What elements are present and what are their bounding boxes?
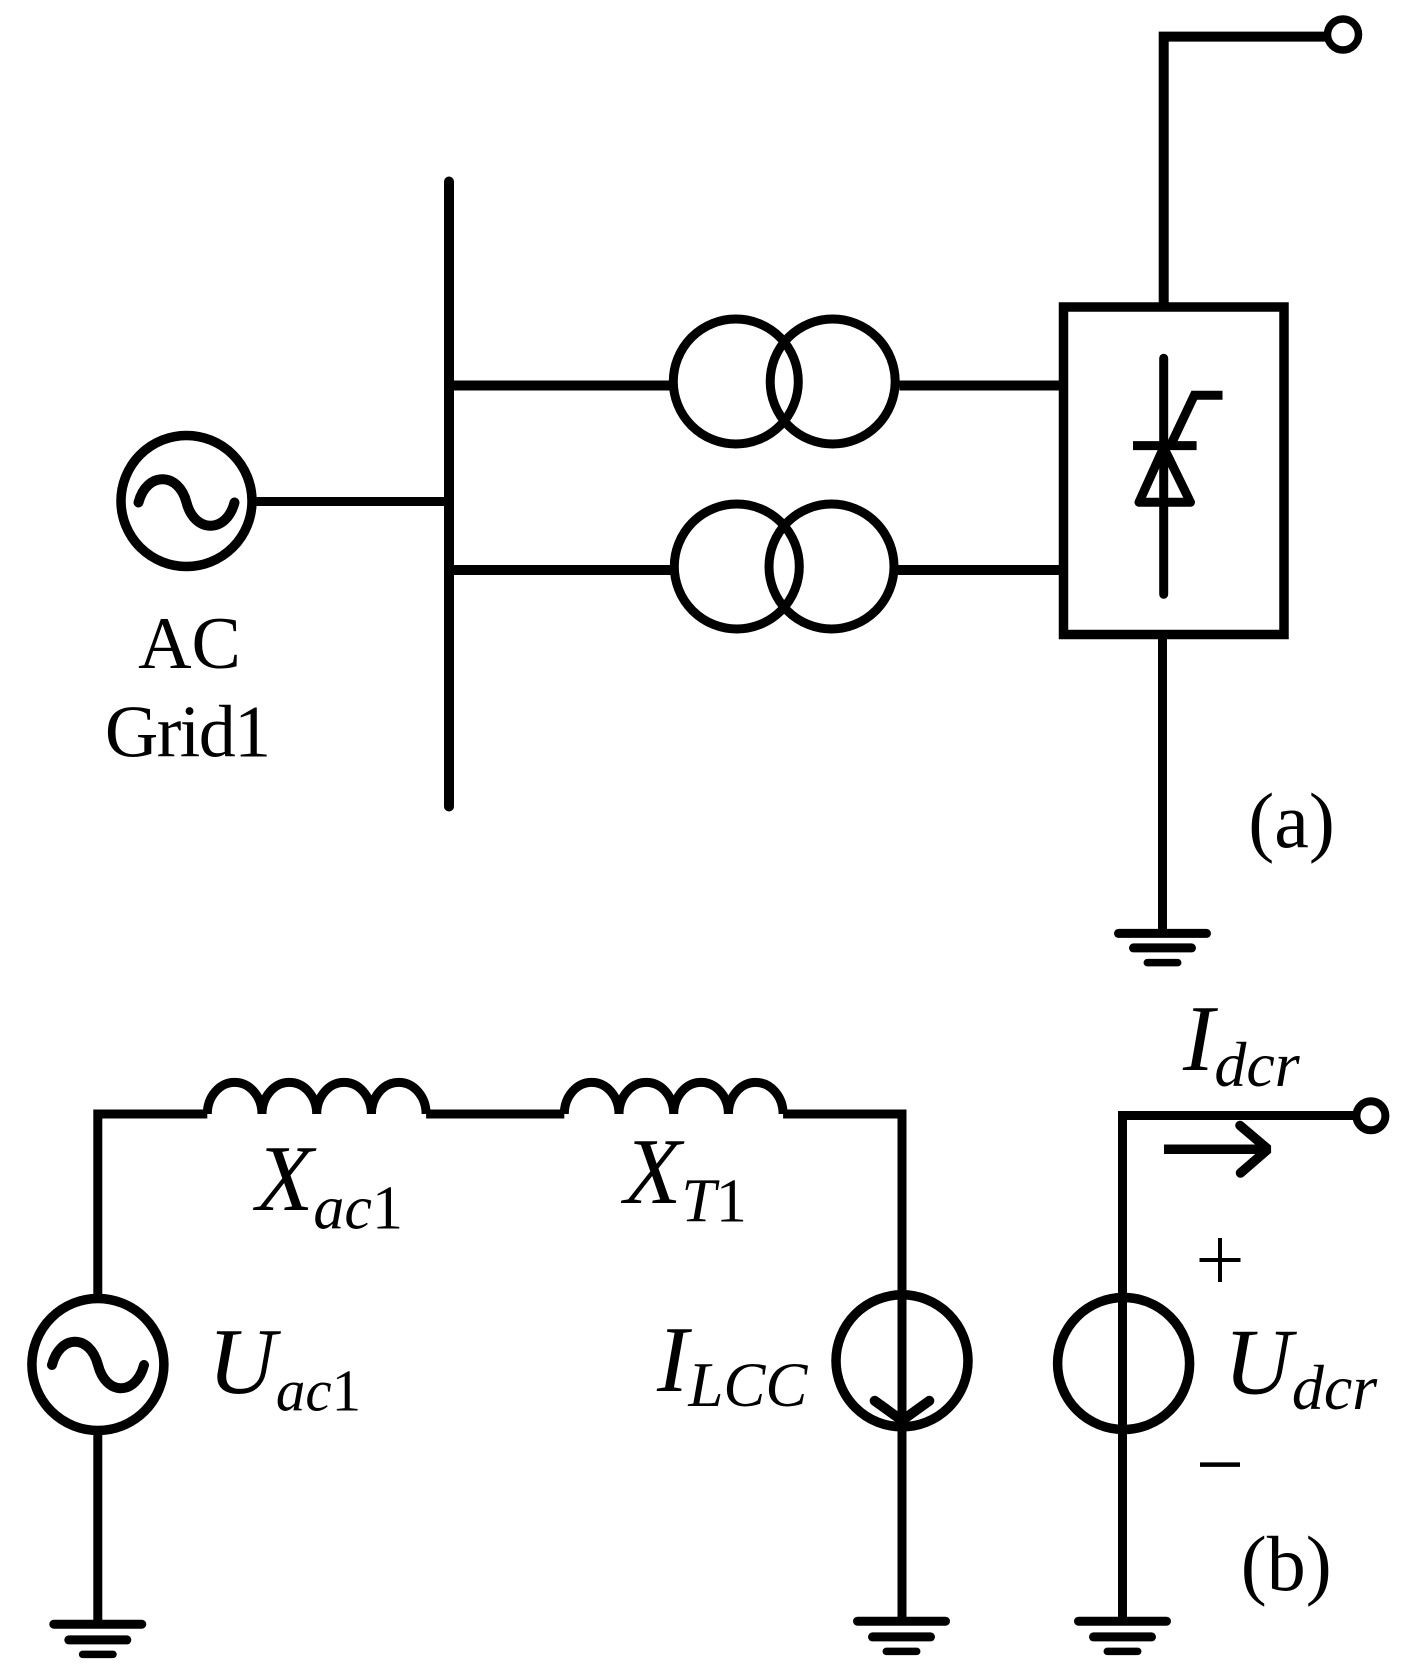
thyristor cathode bar bbox=[1133, 441, 1197, 450]
svg-text:AC: AC bbox=[138, 603, 241, 685]
transformer T1 primary circle bbox=[673, 319, 798, 444]
wire Xac1 to XT1 bbox=[426, 1110, 564, 1119]
thyristor triangle bbox=[1139, 448, 1191, 503]
inductor Xac1 bbox=[207, 1082, 426, 1114]
current source ILCC arrow head bbox=[875, 1401, 930, 1421]
ground (a) bbox=[1119, 933, 1207, 962]
ground under ILCC bbox=[858, 1621, 946, 1651]
wire Uac1 bottom to ground bbox=[93, 1430, 102, 1624]
bus bar node bbox=[444, 182, 454, 807]
AC source Uac1 circle (b) bbox=[32, 1299, 164, 1431]
wire Idcr branch corner to terminal bbox=[1123, 1116, 1372, 1622]
svg-text:Grid1: Grid1 bbox=[105, 692, 270, 774]
svg-text:(b): (b) bbox=[1241, 1520, 1332, 1607]
converter valve box U1 bbox=[1064, 307, 1285, 635]
wire T1 to converter box bbox=[900, 381, 1060, 391]
wire bus to transformer T2 bbox=[449, 565, 671, 575]
current arrow Idcr shaft bbox=[1164, 1144, 1262, 1154]
transformer T2 primary circle bbox=[674, 504, 799, 629]
thyristor gate bbox=[1171, 395, 1223, 445]
current source ILCC circle bbox=[836, 1295, 968, 1427]
wire T2 to converter box bbox=[898, 565, 1059, 575]
wire XT1 to current source ILCC bbox=[783, 1114, 902, 1621]
transformer T1 secondary circle bbox=[770, 319, 895, 444]
wire bus to transformer T1 bbox=[449, 381, 670, 391]
voltage source Udcr circle bbox=[1058, 1298, 1190, 1430]
wire box bottom to ground bbox=[1158, 635, 1167, 934]
DC terminal circle (a) bbox=[1328, 19, 1359, 50]
inductor XT1 bbox=[564, 1082, 783, 1114]
minus sign bbox=[1200, 1462, 1240, 1467]
ground under Uac1 bbox=[54, 1624, 142, 1654]
AC source Uac1 sine wave bbox=[52, 1342, 144, 1389]
thyristor cathode line bbox=[1159, 358, 1168, 594]
ground under Udcr bbox=[1079, 1621, 1167, 1651]
AC source V1 circle (a) bbox=[121, 436, 252, 567]
wire V1 to bus bbox=[250, 497, 449, 506]
svg-text:(a): (a) bbox=[1248, 777, 1335, 864]
current arrow Idcr head bbox=[1240, 1126, 1268, 1174]
AC source V1 sine wave bbox=[139, 479, 235, 526]
DC terminal circle (b) bbox=[1356, 1101, 1385, 1130]
wire box top to DC terminal bbox=[1164, 37, 1330, 307]
transformer T2 secondary circle bbox=[769, 504, 894, 629]
wire Uac1 top to inductor Xac1 bbox=[98, 1114, 208, 1294]
plus sign bbox=[1200, 1238, 1241, 1282]
